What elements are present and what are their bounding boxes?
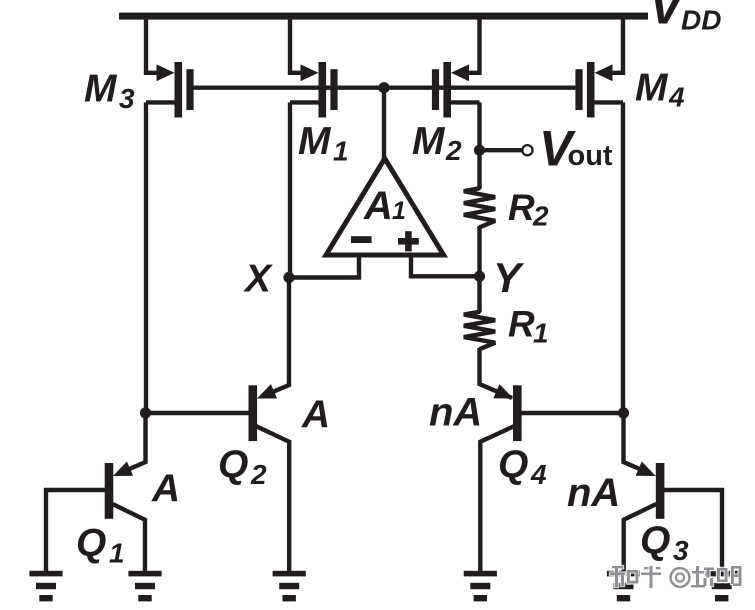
- svg-text:1: 1: [533, 318, 549, 349]
- svg-text:1: 1: [109, 538, 125, 569]
- svg-text:4: 4: [530, 459, 547, 490]
- wire Q1 base to ground: [46, 490, 105, 572]
- wire Q3 emitter from right mirror node: [624, 413, 651, 474]
- node Q3 area label nA: [567, 471, 620, 515]
- node Vout dot: [474, 145, 485, 156]
- svg-text:A: A: [151, 468, 180, 511]
- wire Q4 base to right mirror node: [521, 411, 624, 415]
- svg-text:M: M: [412, 120, 446, 163]
- transistor Q4 label: [498, 444, 547, 491]
- transistor M2 channel bar: [443, 62, 451, 118]
- transistor Q1 emitter arrow: [113, 462, 133, 477]
- wire R1 to Q4 emitter: [480, 348, 513, 398]
- wire Q2 emitter from node X: [262, 278, 289, 397]
- svg-text:Q: Q: [498, 444, 528, 487]
- transistor M1 source arrow: [301, 64, 319, 81]
- transistor M2 source arrow: [451, 64, 469, 81]
- svg-text:4: 4: [668, 82, 685, 113]
- transistor M2 source wire from VDD: [468, 16, 480, 73]
- transistor M3 source arrow: [157, 64, 175, 81]
- node Y label: [493, 254, 525, 301]
- svg-text:R: R: [508, 304, 535, 345]
- op-amp A1 triangle: [326, 159, 444, 256]
- svg-text:Q: Q: [76, 522, 106, 565]
- wire common gate rail: [194, 85, 576, 89]
- wire Q4 collector to ground: [480, 426, 514, 572]
- wire Q3 base to ground: [664, 490, 722, 572]
- transistor M1 label: [298, 120, 349, 167]
- resistor R1 label: [508, 304, 549, 349]
- ground Q2 collector: [273, 571, 306, 602]
- wire Q3 collector to ground: [624, 504, 657, 572]
- node Y dot: [474, 271, 485, 282]
- svg-text:M: M: [298, 120, 332, 163]
- svg-text:3: 3: [673, 535, 689, 566]
- svg-text:DD: DD: [681, 5, 721, 36]
- transistor M3 gate bar: [186, 69, 193, 110]
- transistor Q2 base bar: [249, 385, 258, 441]
- svg-text:M: M: [635, 67, 669, 110]
- wire node Y to R1: [477, 276, 481, 311]
- transistor Q4 emitter arrow: [493, 384, 513, 398]
- ground Q1 collector: [128, 571, 161, 602]
- node X label: [243, 258, 273, 301]
- resistor R2: [464, 186, 495, 227]
- wire Q1 emitter from mirror node: [119, 413, 146, 474]
- svg-text:2: 2: [250, 459, 267, 490]
- node Q2 area label A: [301, 394, 330, 437]
- transistor M4 channel bar: [587, 62, 595, 118]
- transistor M4 source wire from VDD: [612, 16, 624, 73]
- wire Q2 collector to ground: [256, 426, 289, 572]
- wire Vout stub: [480, 148, 522, 152]
- svg-text:X: X: [243, 258, 273, 301]
- node Q1 area label A: [151, 468, 180, 511]
- transistor M2 gate bar: [432, 69, 439, 110]
- transistor M4 source arrow: [595, 64, 613, 81]
- wire M3 drain: [146, 102, 175, 413]
- svg-text:1: 1: [333, 136, 349, 167]
- ground Q3 base: [705, 571, 738, 602]
- transistor M3 label: [84, 68, 135, 115]
- svg-text:R: R: [508, 187, 535, 228]
- transistor Q2 emitter arrow: [257, 384, 277, 398]
- wire VDD supply rail: [119, 13, 648, 20]
- ground Q3 collector: [607, 571, 640, 602]
- transistor Q2 label: [218, 444, 267, 491]
- svg-text:2: 2: [532, 201, 549, 232]
- transistor Q3 label: [640, 520, 689, 567]
- op-amp A1 label: [363, 184, 406, 228]
- svg-text:Y: Y: [493, 254, 525, 301]
- transistor Q1 label: [76, 522, 125, 569]
- transistor Q3 base bar: [656, 463, 665, 519]
- node left mirror junction dot: [140, 407, 151, 418]
- transistor M1 channel bar: [319, 62, 327, 118]
- node Vout terminal circle: [522, 145, 532, 155]
- svg-text:Q: Q: [218, 444, 248, 487]
- wire Q2 base to mirror node: [146, 411, 250, 415]
- ground Q4 collector: [464, 571, 497, 602]
- svg-text:out: out: [568, 140, 613, 172]
- svg-text:A: A: [363, 184, 393, 228]
- op-amp non-inverting input plus sign: [398, 231, 419, 251]
- transistor Q1 base bar: [105, 463, 114, 519]
- svg-text:3: 3: [119, 83, 135, 114]
- wire M4 drain down to right mirror node: [595, 102, 624, 413]
- wire R2 to node Y: [477, 226, 481, 276]
- svg-text:A: A: [301, 394, 330, 437]
- transistor M3 channel bar: [175, 62, 183, 118]
- svg-text:M: M: [84, 68, 118, 111]
- wire M2 drain to Vout node: [451, 102, 480, 150]
- op-amp inverting input minus sign: [351, 236, 372, 243]
- node Q4 area label nA: [429, 391, 482, 435]
- wire Vout node to R2: [477, 150, 481, 188]
- node VDD label: [649, 0, 721, 36]
- transistor Q3 emitter arrow: [636, 462, 656, 477]
- transistor M3 source wire from VDD: [146, 16, 158, 73]
- svg-text:nA: nA: [429, 391, 482, 435]
- transistor M1 gate bar: [330, 69, 337, 110]
- svg-text:Q: Q: [640, 520, 670, 563]
- transistor M4 label: [635, 67, 685, 113]
- resistor R2 label: [508, 187, 549, 232]
- transistor M1 source wire from VDD: [290, 16, 302, 73]
- node X dot: [283, 272, 294, 283]
- node Vout label: [539, 121, 613, 177]
- wire op-amp inverting input stub to node X: [289, 255, 359, 278]
- wire Q1 collector to ground: [113, 504, 146, 572]
- node gate rail junction dot: [378, 82, 389, 93]
- wire op-amp non-inverting input stub to node Y: [411, 255, 480, 276]
- transistor M4 gate bar: [575, 69, 582, 110]
- wire M1 drain to node X: [290, 102, 319, 277]
- wire op-amp output to gate rail: [382, 88, 386, 160]
- resistor R1: [464, 310, 495, 350]
- transistor Q4 base bar: [513, 385, 522, 441]
- svg-text:nA: nA: [567, 471, 620, 515]
- watermark text: [609, 565, 743, 589]
- node right mirror junction dot: [618, 407, 629, 418]
- ground Q1 base: [29, 571, 62, 602]
- svg-text:2: 2: [445, 135, 462, 166]
- transistor M2 label: [412, 120, 462, 166]
- svg-text:1: 1: [392, 197, 406, 225]
